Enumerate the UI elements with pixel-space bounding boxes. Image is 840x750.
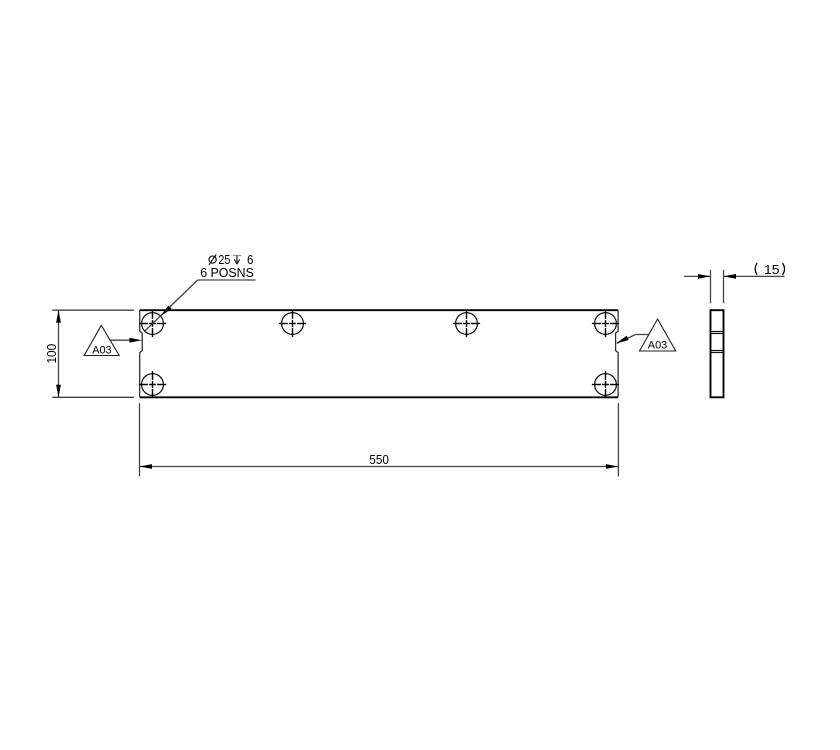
dimension 100 extension lines (52, 310, 134, 397)
dimension (15) extension lines (711, 270, 724, 303)
side view notch edge lines (711, 332, 724, 353)
plate front view bottom edge (140, 396, 618, 398)
hole note diameter symbol (209, 255, 216, 265)
hole H5 bottom-left circle (142, 374, 164, 396)
hole H2 center mark (279, 310, 306, 337)
hole H4 center mark (592, 310, 619, 337)
dimension (15) dimension line right segment (724, 275, 785, 277)
hole H6 center mark (592, 371, 619, 398)
plate front view top edge (140, 309, 618, 311)
dimension (15) dimension line left segment (684, 275, 710, 277)
datum triangle left (84, 325, 119, 355)
hole note leader diagonal (145, 280, 198, 331)
datum leader left (110, 339, 130, 341)
hole H3 top mid-right circle (456, 313, 478, 335)
datum leader left arrowhead (129, 338, 142, 343)
svg-text:A03: A03 (648, 339, 667, 351)
dimension (15) closing paren (783, 263, 785, 275)
dimension 100 arrow down (56, 385, 61, 398)
svg-text:6 POSNS: 6 POSNS (200, 266, 254, 280)
hole H3 center mark (453, 310, 480, 337)
datum triangle right (640, 319, 676, 351)
dimension 550 dimension line (140, 466, 619, 468)
hole note leader arrowhead (161, 306, 172, 317)
hole H6 bottom-right circle (595, 374, 617, 396)
svg-text:100: 100 (45, 344, 59, 364)
datum leader right diagonal segment (617, 335, 636, 344)
hole H4 top-right circle (595, 313, 617, 335)
dimension (15) arrow pointing right (698, 274, 711, 279)
dimension 550 extension lines (140, 403, 619, 476)
svg-text:A03: A03 (92, 345, 111, 357)
hole note leader underline (198, 279, 256, 281)
svg-text:550: 550 (369, 453, 389, 467)
dimension 100 dimension line (58, 310, 60, 397)
hole H1 center mark (139, 310, 166, 337)
dimension (15) arrow pointing left (724, 274, 737, 279)
hole note depth symbol (233, 256, 241, 265)
plate front view right edge with notch (616, 310, 619, 397)
plate front view left edge with notch (140, 310, 143, 397)
dimension 100 arrow up (56, 310, 61, 323)
hole H1 top-left circle (142, 313, 164, 335)
dimension (15) opening paren (755, 263, 757, 275)
hole H5 center mark (139, 371, 166, 398)
svg-text:15: 15 (764, 262, 780, 277)
datum leader right arrowhead (616, 336, 629, 344)
dimension 550 arrow right (606, 464, 619, 469)
hole H2 top mid-left circle (282, 313, 304, 335)
dimension 550 arrow left (140, 464, 153, 469)
datum leader right horizontal segment (636, 334, 649, 336)
side view outline (711, 310, 724, 397)
